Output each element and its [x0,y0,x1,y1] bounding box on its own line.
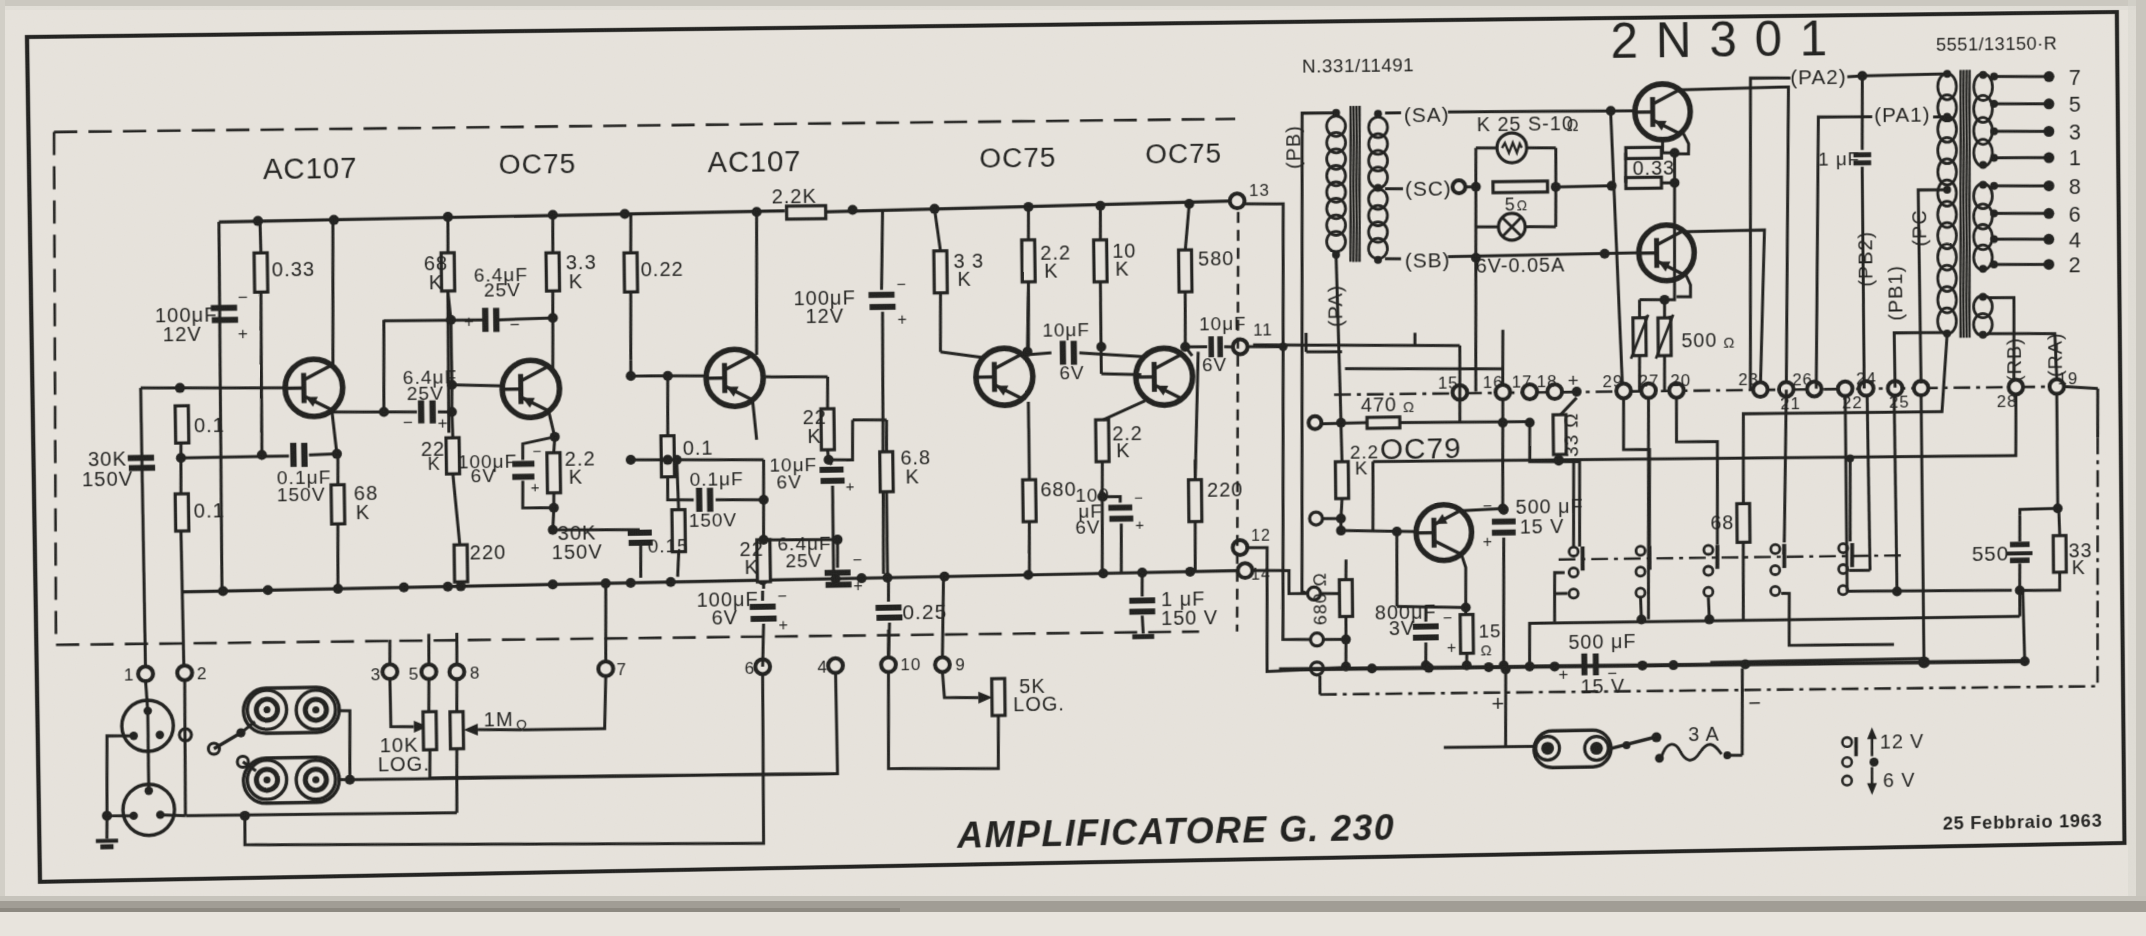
svg-text:1: 1 [124,665,135,685]
svg-text:0.33: 0.33 [272,259,316,281]
svg-text:(PB1): (PB1) [1885,265,1907,321]
svg-text:K: K [1116,441,1131,463]
svg-text:16: 16 [1483,372,1504,392]
svg-text:12 V: 12 V [1880,731,1925,753]
svg-text:−: − [1483,498,1493,516]
svg-text:2: 2 [2069,253,2082,278]
svg-text:−: − [1607,664,1618,684]
svg-text:+: + [1491,692,1505,717]
svg-text:K: K [356,502,371,524]
svg-text:+: + [853,578,864,596]
svg-text:21: 21 [1780,393,1801,413]
svg-text:(PB2): (PB2) [1855,231,1877,287]
svg-text:4: 4 [817,657,828,677]
svg-text:3: 3 [371,665,382,685]
svg-text:(SC): (SC) [1405,177,1452,201]
svg-text:3: 3 [2069,120,2082,145]
svg-text:AC107: AC107 [263,152,358,186]
svg-text:K: K [1355,459,1369,480]
svg-text:LOG.: LOG. [378,754,430,777]
svg-text:(PA1): (PA1) [1874,103,1930,127]
svg-text:17: 17 [1512,372,1533,392]
svg-text:26: 26 [1792,369,1813,389]
svg-text:−: − [1748,690,1762,715]
svg-text:+: + [1568,371,1580,392]
svg-text:25V: 25V [407,383,444,404]
svg-text:10μF: 10μF [1042,320,1090,341]
svg-text:6: 6 [744,658,755,678]
svg-text:Ω: Ω [1481,642,1493,659]
svg-text:12V: 12V [163,324,202,346]
svg-text:4: 4 [2069,228,2082,253]
svg-text:15 V: 15 V [1580,676,1625,698]
svg-text:15: 15 [1438,373,1459,393]
svg-text:500 μF: 500 μF [1568,632,1636,655]
svg-text:K: K [1115,259,1130,281]
svg-text:500: 500 [1681,331,1717,353]
svg-text:+: + [531,480,541,497]
svg-text:0.15: 0.15 [648,536,689,557]
svg-text:OC75: OC75 [1145,138,1222,171]
svg-text:AMPLIFICATORE G. 230: AMPLIFICATORE G. 230 [956,807,1395,855]
svg-text:−: − [777,588,788,606]
svg-text:+: + [1447,640,1457,658]
svg-text:+: + [1135,517,1145,534]
svg-text:+: + [897,311,908,329]
svg-text:LOG.: LOG. [1013,694,1065,717]
svg-text:25V: 25V [785,551,822,572]
svg-text:25 Febbraio 1963: 25 Febbraio 1963 [1943,811,2103,834]
svg-text:K: K [957,269,972,291]
svg-text:8: 8 [470,663,481,683]
svg-text:(PA2): (PA2) [1790,66,1847,90]
svg-text:(RB): (RB) [2004,337,2026,382]
svg-text:28: 28 [1997,391,2018,411]
svg-text:6V: 6V [1075,518,1100,539]
svg-text:−: − [403,412,414,432]
svg-text:Ω: Ω [1723,335,1735,352]
svg-text:K: K [744,557,759,579]
svg-text:K: K [2072,558,2086,580]
svg-text:9: 9 [955,655,966,675]
svg-text:0.25: 0.25 [902,600,947,624]
svg-text:−: − [533,444,543,461]
svg-text:6V: 6V [471,467,497,488]
svg-text:3 A: 3 A [1688,724,1720,746]
svg-text:20: 20 [1670,370,1691,390]
svg-text:150V: 150V [82,468,134,491]
svg-text:6V: 6V [1202,356,1227,377]
svg-text:K: K [429,272,444,294]
svg-text:680: 680 [1040,479,1077,501]
svg-text:−: − [510,314,521,334]
svg-text:68: 68 [1710,513,1734,535]
svg-text:K: K [428,454,441,474]
svg-text:−: − [852,552,863,570]
svg-text:6 V: 6 V [1883,770,1916,792]
svg-text:550: 550 [1972,542,2010,566]
svg-text:150V: 150V [277,485,326,507]
svg-text:580: 580 [1198,249,1234,271]
svg-text:150V: 150V [689,510,738,532]
svg-text:+: + [1483,534,1493,552]
svg-text:12: 12 [1251,527,1271,545]
svg-text:15 V: 15 V [1520,516,1565,538]
svg-text:680 Ω: 680 Ω [1310,572,1330,626]
svg-text:2.2K: 2.2K [771,187,817,209]
svg-text:K: K [569,272,584,294]
svg-text:−: − [896,276,907,294]
svg-text:150V: 150V [552,541,603,564]
svg-text:N.331/11491: N.331/11491 [1302,56,1414,78]
svg-text:0.1: 0.1 [683,438,714,460]
svg-text:Ω: Ω [1517,199,1529,215]
svg-text:27: 27 [1638,371,1659,391]
svg-text:K 25 S-10: K 25 S-10 [1477,113,1574,136]
svg-text:15: 15 [1479,621,1502,642]
svg-text:7: 7 [616,660,627,680]
svg-text:(SB): (SB) [1405,248,1451,272]
svg-text:5: 5 [1505,195,1516,215]
svg-text:0.33: 0.33 [1633,158,1676,180]
svg-text:5: 5 [2069,92,2082,117]
svg-text:+: + [438,413,449,433]
svg-text:24: 24 [1856,369,1877,389]
svg-text:25V: 25V [484,281,521,302]
svg-text:0.22: 0.22 [641,259,684,281]
svg-text:−: − [1134,490,1144,507]
svg-text:Ω: Ω [1567,117,1580,135]
svg-text:23: 23 [1738,370,1759,390]
svg-text:25: 25 [1889,392,1910,412]
svg-text:12V: 12V [805,306,844,328]
svg-text:18: 18 [1537,372,1558,392]
svg-text:AC107: AC107 [707,145,801,179]
svg-text:33 Ω: 33 Ω [1562,412,1583,457]
svg-text:6V: 6V [1059,364,1084,385]
svg-text:6: 6 [2069,202,2082,227]
svg-text:8: 8 [2069,174,2082,199]
svg-text:5551/13150·R: 5551/13150·R [1936,33,2057,55]
svg-text:6V-0.05A: 6V-0.05A [1476,255,1566,278]
svg-text:470: 470 [1361,394,1397,416]
svg-text:13: 13 [1249,180,1270,200]
svg-text:−: − [238,287,249,307]
svg-text:(RA): (RA) [2045,332,2067,377]
svg-text:10: 10 [900,655,921,675]
svg-text:150 V: 150 V [1161,608,1218,631]
svg-text:5: 5 [409,664,420,684]
svg-text:1: 1 [2069,146,2082,171]
svg-text:220: 220 [470,542,507,564]
svg-text:10μF: 10μF [1199,314,1247,335]
svg-text:0.1μF: 0.1μF [689,469,743,491]
svg-text:K: K [905,467,920,489]
svg-text:+: + [1558,665,1569,685]
svg-text:K: K [1044,261,1059,283]
svg-text:2N301: 2N301 [1610,10,1845,69]
svg-text:7: 7 [2069,65,2082,90]
svg-text:K: K [569,467,584,489]
svg-text:29: 29 [1602,371,1623,391]
svg-text:2: 2 [197,664,208,684]
svg-text:11: 11 [1253,320,1273,340]
svg-text:+: + [238,323,249,343]
svg-text:6V: 6V [776,473,802,494]
svg-text:+: + [778,617,789,635]
svg-text:K: K [807,426,822,448]
svg-text:(SA): (SA) [1404,103,1450,127]
svg-text:3V: 3V [1389,618,1415,640]
svg-text:6V: 6V [711,607,738,629]
svg-text:OC75: OC75 [499,148,577,181]
svg-text:−: − [1443,610,1453,628]
svg-text:+: + [845,479,855,496]
svg-text:Ω: Ω [1403,399,1415,416]
svg-text:OC75: OC75 [979,142,1056,175]
